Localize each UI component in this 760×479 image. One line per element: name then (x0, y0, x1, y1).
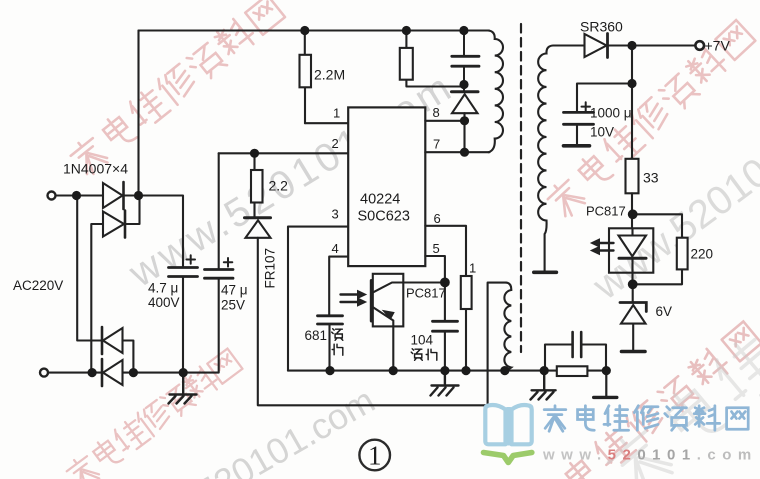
light arrows into phototransistor (341, 295, 360, 303)
ground bar right (594, 371, 617, 398)
svg-text:8: 8 (433, 105, 440, 120)
svg-text:6: 6 (434, 211, 441, 226)
node ground aux winding (500, 366, 509, 375)
node pin5-collector (440, 278, 450, 288)
transformer T1 aux winding (504, 283, 511, 371)
optocoupler U2 PC817 phototransistor box (373, 274, 404, 327)
wire D2 cathode to plus node (125, 196, 140, 224)
node pin8-D5 (460, 116, 469, 125)
node ground C7 left (540, 366, 549, 375)
diode D5 clamp (452, 90, 479, 93)
svg-text:104: 104 (411, 333, 434, 348)
watermark pink run bottom-right (527, 321, 760, 479)
transformer T1 primary winding (488, 31, 503, 153)
svg-text:6V: 6V (656, 304, 673, 319)
svg-text:PC817: PC817 (406, 286, 446, 301)
node bridge minus (129, 368, 138, 377)
svg-text:25V: 25V (221, 298, 245, 313)
node top rail R3 (402, 26, 411, 35)
node bridge plus (134, 191, 143, 200)
svg-text:S0C623: S0C623 (358, 209, 410, 225)
svg-text:3: 3 (332, 207, 339, 222)
terminal AC line 1 (48, 192, 56, 200)
wire output bus down (631, 46, 633, 159)
resistor R5 33 (626, 159, 639, 194)
node top rail C5 (459, 26, 468, 35)
ground primary minus (169, 373, 197, 404)
wire D1 cathode to plus node (124, 196, 184, 268)
node output +7V bus (627, 41, 636, 50)
node AC1-D1 anode (72, 191, 81, 200)
resistor R1 2.2M (304, 31, 306, 124)
svg-text:400V: 400V (148, 295, 180, 310)
wire D2 anode to AC line 2 (91, 224, 103, 373)
wire primary ground rail (288, 370, 606, 372)
capacitor C2 47u 25V (205, 270, 234, 279)
wire top rail (139, 29, 490, 31)
wire IC pin 1 (305, 122, 348, 124)
node output C6 (627, 79, 636, 88)
ground bar at C6 (564, 144, 590, 148)
label ci pian of 104 (411, 349, 437, 361)
resistor R2 2.2 (253, 153, 255, 216)
terminal +7V (695, 41, 704, 50)
wire to +7V terminal (608, 44, 696, 46)
diode D6 SR360 (585, 34, 607, 57)
watermark giant faint gray hanzi (603, 158, 760, 479)
wire IC pin 3 to ground rail (288, 227, 348, 371)
wire IC pin 6 to R4 (425, 226, 466, 371)
svg-text:1N4007×4: 1N4007×4 (63, 161, 128, 177)
node ground C3 (325, 366, 334, 375)
zener D7 6V (632, 284, 634, 302)
svg-text:www.520101.com: www.520101.com (542, 447, 758, 464)
svg-text:FR107: FR107 (263, 248, 278, 289)
node ground C4 (440, 366, 449, 375)
diode D1 (1N4007 bridge) (103, 183, 123, 208)
node LED cathode (628, 279, 638, 289)
LED of PC817 (631, 228, 633, 284)
wire FR107 anode to aux winding (258, 238, 506, 405)
ground at C4 (431, 371, 459, 396)
ground bar secondary return (534, 270, 557, 274)
svg-text:2.2: 2.2 (269, 178, 289, 194)
diode D2 (1N4007 bridge) (103, 212, 124, 237)
watermark pink run top-left (68, 0, 285, 178)
label ci of 681 (332, 329, 343, 341)
svg-text:40224: 40224 (360, 192, 400, 208)
diode FR107 (245, 216, 271, 219)
node snubber RC-D5 (459, 80, 468, 89)
svg-text:47 μ: 47 μ (221, 283, 248, 298)
svg-text:AC220V: AC220V (13, 278, 63, 293)
logo book icon left page (485, 405, 531, 446)
label pian of 681 (332, 344, 343, 355)
wire AC line 1 (56, 194, 103, 196)
node ground C7 right (602, 366, 611, 375)
resistor R7 inter-ground (557, 366, 588, 376)
svg-text:7: 7 (433, 137, 440, 152)
capacitor C1 4.7u 400V (169, 268, 198, 277)
node pin7-winding (460, 148, 469, 157)
svg-text:2.2M: 2.2M (314, 67, 345, 83)
node ground R4 (461, 366, 470, 375)
capacitor C3 681 ceramic (318, 316, 343, 324)
node top rail R1 (300, 26, 309, 35)
logo book spine (506, 407, 511, 446)
resistor R6 220 (633, 214, 682, 284)
wire bridge plus node riser (137, 31, 139, 196)
logo book icon right page (512, 405, 532, 444)
wire AC line 2 (48, 372, 102, 374)
svg-text:33: 33 (643, 170, 659, 186)
capacitor C6 1000u 10V (577, 84, 632, 113)
ground hatched at rail (531, 371, 556, 400)
svg-text:+7V: +7V (705, 38, 731, 54)
capacitor C4 104 ceramic (433, 321, 458, 331)
transistor of PC817 (370, 281, 373, 322)
capacitor C7 inter-ground (573, 332, 582, 357)
svg-text:SR360: SR360 (580, 19, 623, 35)
node Vcc pin2 (250, 149, 259, 158)
node ground emitter (389, 366, 398, 375)
resistor R4 1 (461, 276, 472, 309)
svg-text:681: 681 (305, 328, 328, 343)
IC U1 40224 SOC623 (348, 107, 425, 266)
wire IC pin 5 node (425, 256, 445, 371)
transformer T1 secondary winding (538, 46, 584, 272)
svg-text:1000 μ: 1000 μ (590, 106, 632, 121)
resistor R3 snubber (406, 31, 464, 87)
svg-text:4.7 μ: 4.7 μ (148, 281, 178, 296)
svg-text:2: 2 (332, 136, 339, 151)
light arrows out of LED (597, 243, 614, 251)
figure number circled 1 (359, 440, 390, 471)
node primary ground (179, 368, 188, 377)
diode D4 (1N4007 bridge) (103, 360, 123, 385)
wire minus node rail to ground and 47u (123, 278, 219, 372)
diode D3 (1N4007 bridge) (103, 328, 123, 353)
svg-text:5: 5 (433, 241, 440, 256)
terminal AC line 2 (40, 369, 48, 377)
node LED anode (628, 209, 638, 219)
wire D3 cathode to AC line 1 (77, 196, 102, 341)
svg-text:1: 1 (368, 441, 382, 471)
svg-text:4: 4 (332, 241, 339, 256)
wire IC pin 4 to C3 (329, 257, 348, 316)
optocoupler U2 PC817 LED box (609, 228, 653, 272)
watermark pink run top-right (544, 20, 755, 220)
wire Vcc node to IC pin 2 (219, 152, 349, 154)
svg-text:220: 220 (691, 247, 714, 262)
wire IC pin 7 to primary winding (425, 151, 489, 153)
transformer core dashed line (520, 24, 522, 352)
node AC2-D2 anode (88, 368, 97, 377)
logo title text 家电维修资料网 (544, 406, 748, 432)
svg-text:1: 1 (333, 106, 340, 121)
svg-text:PC817: PC817 (586, 204, 626, 219)
capacitor C5 snubber (452, 31, 479, 92)
svg-text:1: 1 (469, 261, 476, 276)
svg-text:10V: 10V (590, 125, 614, 140)
wire D3 anode to minus node (123, 341, 134, 373)
watermark pink run bottom-left (64, 349, 242, 479)
logo green swoosh (484, 453, 532, 463)
ground bar at zener (622, 350, 646, 354)
wire IC pin 8 to clamp diode (425, 121, 464, 152)
